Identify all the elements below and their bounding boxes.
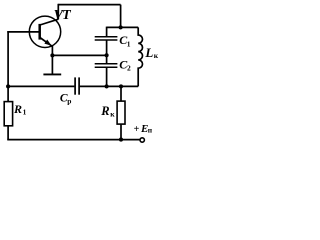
node C1-C2 midpoint <box>105 53 109 57</box>
svg-text:R: R <box>13 102 22 116</box>
node C2 bottom junction <box>105 84 109 88</box>
wire C1 top stem <box>106 27 108 36</box>
wire Rk bottom stem <box>120 125 122 140</box>
svg-text:к: к <box>154 51 159 60</box>
svg-text:1: 1 <box>127 40 131 49</box>
wire Rk top stem <box>120 86 122 100</box>
resistor Rk <box>117 101 125 124</box>
wire base lead <box>7 31 40 33</box>
wire C2 bottom stem <box>106 68 108 87</box>
resistor R1 <box>4 102 12 126</box>
svg-text:2: 2 <box>127 64 131 73</box>
wire R1 bottom stem <box>7 126 9 139</box>
wire left vertical (base to R1) <box>7 31 9 101</box>
wire ground stem <box>51 55 53 73</box>
inductor Lk <box>138 27 142 86</box>
wire riser from top rail to bus <box>120 5 122 28</box>
svg-text:1: 1 <box>23 108 27 117</box>
capacitor C1 <box>95 37 118 40</box>
node left rail junction <box>6 84 10 88</box>
node emitter junction <box>50 53 54 57</box>
wire bottom rail <box>8 138 140 141</box>
node Rk bottom junction <box>119 138 123 142</box>
capacitor Cp <box>75 77 79 94</box>
wire C1-C2 link <box>106 40 108 63</box>
capacitor C2 <box>95 64 118 68</box>
node Rk top junction <box>119 84 123 88</box>
svg-text:VT: VT <box>54 8 73 23</box>
wire mid rail left of Cp <box>8 85 74 87</box>
svg-text:R: R <box>100 104 109 118</box>
transistor VT <box>29 16 60 47</box>
wire mid rail right of Cp <box>80 85 138 87</box>
svg-text:п: п <box>148 125 153 134</box>
svg-text:L: L <box>144 45 153 60</box>
wire emitter to capacitor midpoint <box>52 54 106 56</box>
terminal +Ep <box>140 138 144 142</box>
wire collector riser <box>57 4 59 20</box>
wire top node bus <box>107 26 139 28</box>
svg-text:р: р <box>67 96 71 105</box>
node top bus junction <box>119 25 123 29</box>
wire top rail <box>58 4 120 6</box>
wire emitter drop <box>51 46 53 55</box>
svg-text:к: к <box>110 109 115 118</box>
svg-text:+: + <box>134 124 140 135</box>
ground <box>43 73 61 75</box>
